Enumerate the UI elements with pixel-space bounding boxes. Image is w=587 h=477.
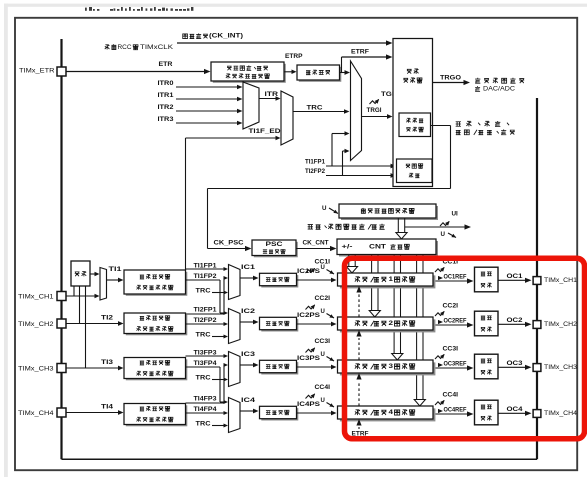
svg-text:OC4: OC4 [507, 406, 524, 413]
svg-text:IC1: IC1 [241, 264, 256, 271]
svg-text:IC4: IC4 [241, 397, 256, 404]
svg-text:TI2FP1: TI2FP1 [194, 307, 218, 314]
svg-text:OC4REF: OC4REF [444, 407, 467, 413]
svg-text:TI3: TI3 [101, 359, 114, 366]
svg-text:TIMx_CH2: TIMx_CH2 [18, 321, 54, 328]
svg-text:ETR: ETR [159, 61, 173, 68]
svg-text:U: U [322, 205, 327, 212]
svg-text:IC2PS: IC2PS [297, 312, 320, 319]
svg-text:OC3: OC3 [507, 360, 524, 367]
svg-text:UI: UI [452, 211, 459, 218]
svg-text:ITR1: ITR1 [158, 92, 175, 99]
svg-text:CC2I: CC2I [315, 296, 331, 302]
svg-text:TI1FP1: TI1FP1 [305, 159, 326, 166]
svg-text:TRC: TRC [196, 287, 212, 294]
svg-text:RCC: RCC [118, 44, 132, 51]
svg-text:1: 1 [389, 276, 394, 283]
svg-text:4: 4 [389, 409, 394, 416]
svg-text:TRC: TRC [196, 331, 212, 338]
svg-text:IC2: IC2 [241, 308, 256, 315]
svg-text:CC3I: CC3I [315, 339, 331, 345]
svg-text:OC1: OC1 [507, 273, 524, 280]
svg-text:TGI: TGI [381, 91, 394, 98]
svg-text:TIMx_CH3: TIMx_CH3 [544, 364, 577, 371]
svg-text:TIMx_CH1: TIMx_CH1 [544, 277, 577, 284]
svg-text:+/-: +/- [342, 243, 353, 250]
svg-text:TI3FP4: TI3FP4 [194, 360, 218, 367]
svg-text:CK_PSC: CK_PSC [214, 240, 245, 247]
svg-text:CC1I: CC1I [315, 260, 331, 266]
svg-text:3: 3 [389, 363, 394, 370]
svg-text:2: 2 [389, 320, 394, 327]
svg-text:IC4PS: IC4PS [297, 401, 320, 408]
svg-text:TI2FP2: TI2FP2 [305, 168, 326, 175]
svg-text:TRGO: TRGO [440, 75, 461, 82]
svg-text:ETRP: ETRP [285, 53, 303, 60]
svg-text:TIMx_CH4: TIMx_CH4 [544, 410, 577, 417]
svg-text:U: U [321, 265, 325, 271]
svg-text:PSC: PSC [266, 241, 283, 248]
svg-text:CNT: CNT [369, 243, 386, 250]
svg-text:TIMx_CH3: TIMx_CH3 [18, 365, 54, 372]
svg-text:U: U [441, 231, 446, 238]
svg-text:TRC: TRC [196, 420, 212, 427]
svg-text:OC1REF: OC1REF [444, 274, 467, 280]
svg-text:U: U [321, 309, 325, 315]
svg-text:CC4I: CC4I [315, 385, 331, 391]
svg-text:CC2I: CC2I [443, 304, 459, 310]
svg-text:U: U [321, 398, 325, 404]
svg-text:OC3REF: OC3REF [444, 361, 467, 367]
svg-text:TI4FP3: TI4FP3 [194, 396, 218, 403]
svg-text:TI1: TI1 [109, 266, 123, 273]
svg-text:TI4FP4: TI4FP4 [194, 406, 218, 413]
svg-text:TRC: TRC [307, 105, 324, 112]
svg-text:TRGI: TRGI [367, 107, 382, 114]
svg-text:IC3PS: IC3PS [297, 355, 320, 362]
svg-text:IC3: IC3 [241, 351, 256, 358]
svg-text:CC4I: CC4I [443, 393, 459, 399]
svg-text:TI2: TI2 [101, 315, 114, 322]
svg-text:ITR2: ITR2 [158, 104, 175, 111]
svg-text:TRC: TRC [196, 374, 212, 381]
svg-text:(CK_INT): (CK_INT) [209, 33, 243, 40]
svg-text:TIMx_ETR: TIMx_ETR [19, 68, 55, 75]
svg-text:TI1FP2: TI1FP2 [194, 273, 218, 280]
svg-text:TI1F_ED: TI1F_ED [249, 128, 282, 135]
svg-text:DAC/ADC: DAC/ADC [483, 86, 516, 93]
svg-text:TIMx_CH2: TIMx_CH2 [544, 321, 577, 328]
svg-text:ITR3: ITR3 [158, 116, 175, 123]
svg-text:ETRF: ETRF [351, 49, 369, 56]
svg-text:CK_CNT: CK_CNT [303, 240, 329, 247]
svg-text:TI4: TI4 [101, 404, 114, 411]
svg-text:OC2REF: OC2REF [444, 318, 467, 324]
svg-text:TIMxCLK: TIMxCLK [140, 44, 174, 51]
svg-text:TIMx_CH4: TIMx_CH4 [18, 410, 54, 417]
svg-text:TIMx_CH1: TIMx_CH1 [18, 293, 54, 300]
svg-text:TI2FP2: TI2FP2 [194, 317, 218, 324]
svg-text:U: U [321, 352, 325, 358]
svg-text:ITR0: ITR0 [158, 80, 175, 87]
svg-text:CC3I: CC3I [443, 347, 459, 353]
svg-text:OC2: OC2 [507, 317, 524, 324]
